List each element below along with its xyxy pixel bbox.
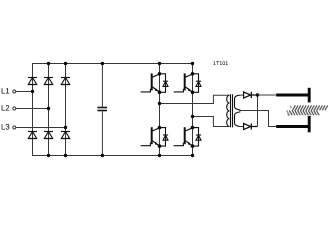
svg-text:L1: L1 xyxy=(1,87,10,96)
wire left leg output to primary top xyxy=(160,95,230,103)
wire top DC rail xyxy=(33,64,193,92)
transformer T1 secondary bottom half xyxy=(235,112,240,126)
node left leg tap xyxy=(158,102,161,105)
node top rail right leg xyxy=(191,62,194,65)
node bottom rail left leg xyxy=(158,154,161,157)
node right leg tap xyxy=(191,115,194,118)
terminal L3 xyxy=(13,126,16,129)
wire secondary bottom lead xyxy=(240,125,244,127)
svg-text:L3: L3 xyxy=(1,123,10,132)
transistor Q2 xyxy=(174,73,193,92)
diode D3 xyxy=(61,78,70,85)
wire output to top electrode xyxy=(258,94,277,96)
wire L2 phase xyxy=(16,108,49,110)
node Q1 emitter xyxy=(158,91,162,95)
node Q1 collector xyxy=(158,72,162,76)
wire L1 phase xyxy=(16,91,33,93)
capacitor C1 xyxy=(97,64,107,156)
wire inverter left leg xyxy=(159,64,161,156)
freewheel diode Q1 xyxy=(160,74,169,93)
diode D5 xyxy=(44,132,53,139)
wire diode join xyxy=(257,95,259,127)
node Q3 emitter xyxy=(158,144,162,148)
node cap top xyxy=(101,62,104,65)
diode D7 xyxy=(244,92,258,98)
label 1T101 xyxy=(213,61,228,67)
node bottom rail right leg xyxy=(191,154,194,157)
node Q4 emitter xyxy=(191,144,195,148)
freewheel diode Q3 xyxy=(160,128,169,147)
wire secondary top lead xyxy=(240,94,244,96)
freewheel diode Q4 xyxy=(193,128,202,147)
wire right leg output to primary bottom xyxy=(193,117,230,127)
diode D1 xyxy=(28,78,37,85)
transistor Q4 xyxy=(174,127,193,146)
transistor Q1 xyxy=(141,73,160,92)
node L1-leg1 xyxy=(31,90,34,93)
wire inverter right leg xyxy=(192,64,194,156)
node Q3 collector xyxy=(158,126,162,130)
svg-text:1T101: 1T101 xyxy=(213,61,228,67)
label L2 xyxy=(1,104,10,113)
diode D8 xyxy=(244,123,258,129)
transistor Q3 xyxy=(141,127,160,146)
wire rectifier leg 3 xyxy=(65,64,67,156)
svg-text:L2: L2 xyxy=(1,104,10,113)
wire rectifier leg 2 xyxy=(48,64,50,156)
node L2-leg2 xyxy=(47,107,50,110)
label L1 xyxy=(1,87,10,96)
freewheel diode Q2 xyxy=(193,74,202,93)
node top rail leg3 xyxy=(64,62,67,65)
workpiece hatch xyxy=(287,105,328,116)
wire bottom DC rail xyxy=(33,92,193,156)
transformer T1 primary winding xyxy=(227,95,230,126)
label L3 xyxy=(1,123,10,132)
diode D2 xyxy=(44,78,53,85)
wire secondary center tap xyxy=(240,110,277,127)
diode D6 xyxy=(61,132,70,139)
node Q2 collector xyxy=(191,72,195,76)
node top rail leg2 xyxy=(47,62,50,65)
terminal L1 xyxy=(13,90,16,93)
node Q2 emitter xyxy=(191,91,195,95)
terminal L2 xyxy=(13,107,16,110)
transformer T1 core xyxy=(231,94,233,127)
electrode bottom xyxy=(276,116,310,132)
wire L3 phase xyxy=(16,127,66,129)
node bottom rail leg2 xyxy=(47,154,50,157)
node top rail left leg xyxy=(158,62,161,65)
transformer T1 secondary top half xyxy=(235,95,240,110)
node Q4 collector xyxy=(191,126,195,130)
node cap bottom xyxy=(101,154,104,157)
node rectifier output xyxy=(256,93,259,96)
diode D4 xyxy=(28,132,37,139)
node bottom rail leg3 xyxy=(64,154,67,157)
node L3-leg3 xyxy=(64,126,67,129)
electrode top xyxy=(276,88,310,103)
